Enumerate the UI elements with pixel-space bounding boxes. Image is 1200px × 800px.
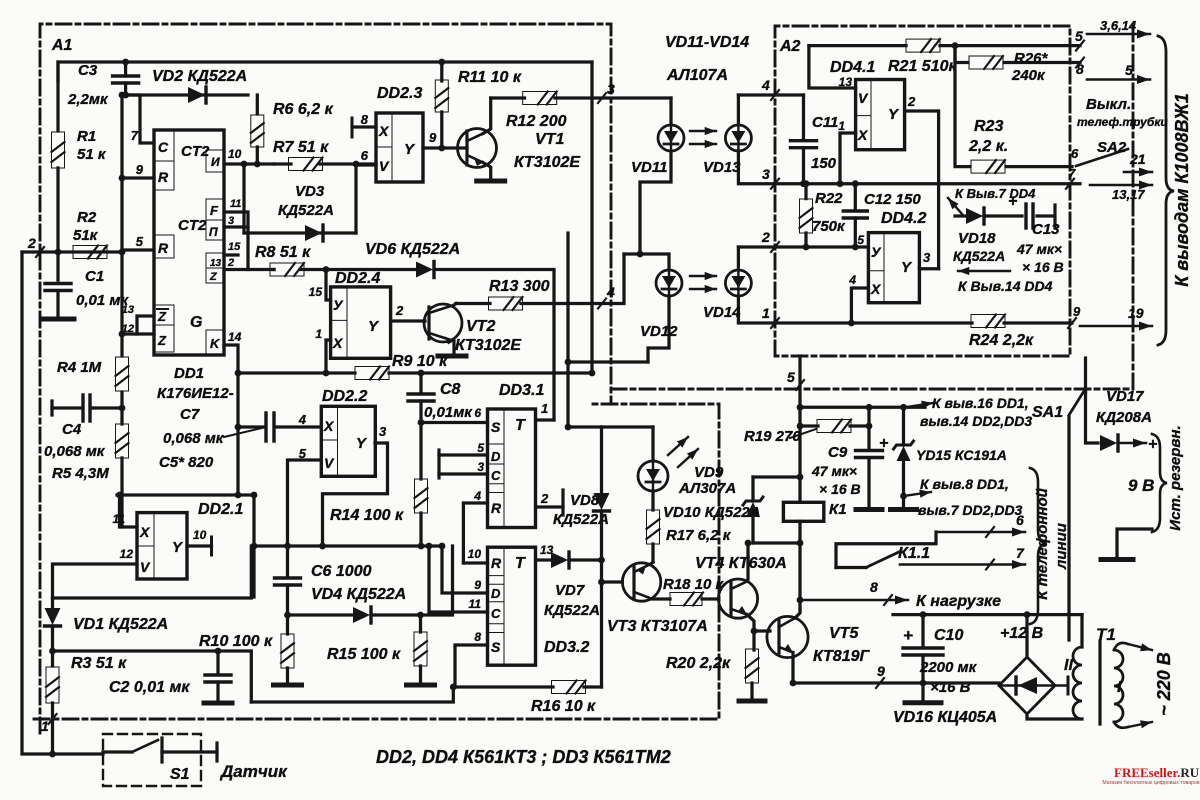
svg-text:A1: A1: [51, 37, 73, 54]
DD1 pin 9 R: [122, 162, 154, 178]
label I: [1117, 679, 1122, 696]
DD3.2 pin 13 out: [536, 543, 554, 560]
svg-text:C: C: [491, 606, 501, 621]
wire bottom rail y702: [251, 687, 453, 702]
svg-text:S: S: [491, 639, 501, 655]
node rail/K col: [235, 492, 242, 499]
node C11/row3: [800, 180, 807, 187]
wire VD1 top row: [53, 546, 252, 598]
label C1: [76, 268, 129, 309]
diode VD17: [1100, 435, 1118, 451]
DD3.2 pin 8 S: [455, 630, 488, 687]
battery minus lead: [1101, 529, 1152, 560]
label VD11-VD14 header: [665, 34, 749, 84]
relay K1 coil: [783, 502, 823, 521]
transistor VT1: [458, 129, 497, 168]
wire to VD12: [640, 254, 669, 269]
svg-text:К выводам К1008ВЖ1: К выводам К1008ВЖ1: [1172, 93, 1192, 287]
svg-text:15: 15: [309, 285, 323, 299]
resistor R4: [116, 357, 129, 391]
svg-text:К выв.16 DD1,: К выв.16 DD1,: [932, 395, 1029, 411]
switch SA2: [1071, 139, 1152, 177]
optocoupler photodiode VD14: [725, 247, 775, 323]
svg-text:8: 8: [361, 112, 369, 127]
label DD2.4: [335, 270, 380, 287]
wire VD9 top: [602, 427, 654, 461]
node R14 bottom: [418, 543, 425, 550]
svg-text:X: X: [378, 123, 390, 139]
A2 pin 1: [762, 305, 779, 328]
svg-text:C: C: [491, 468, 501, 483]
svg-text:3: 3: [228, 215, 234, 227]
svg-text:12: 12: [120, 547, 134, 561]
svg-text:R: R: [158, 240, 169, 256]
svg-text:C11: C11: [812, 114, 838, 131]
svg-text:Датчик: Датчик: [219, 762, 288, 781]
svg-text:VD10 КД522А: VD10 КД522А: [663, 504, 761, 521]
svg-text:VD13: VD13: [703, 159, 741, 176]
label VD6: [365, 241, 460, 258]
label VT4: [695, 555, 787, 572]
node VD8/VT3base: [598, 579, 605, 586]
resistor R21: [906, 39, 940, 52]
arrow out 3,6,14: [1075, 18, 1150, 51]
wire VD3 row: [244, 231, 356, 234]
svg-text:КД522А: КД522А: [278, 202, 334, 219]
svg-text:VD1 КД522А: VD1 КД522А: [73, 616, 168, 633]
IC DD3.2 body: [488, 547, 536, 665]
svg-text:К выв.8 DD1,: К выв.8 DD1,: [920, 476, 1009, 492]
DD2.3 pin 8 open: [352, 112, 376, 137]
wire DD2.2 V row: [288, 460, 322, 546]
svg-text:X: X: [323, 418, 335, 434]
diode VD2: [188, 87, 206, 103]
node И row / VD3 col: [241, 161, 248, 168]
transformer T1 secondary II: [1027, 615, 1082, 719]
resistor R23: [971, 160, 1005, 173]
node VD15/выв8: [900, 493, 907, 500]
svg-text:R2: R2: [77, 209, 97, 226]
resistor R26: [969, 56, 1003, 69]
svg-text:Ист. резервн.: Ист. резервн.: [1167, 425, 1184, 530]
label R16: [531, 698, 596, 715]
wire R13 to opto: [624, 252, 640, 255]
wire VD4 row: [288, 613, 421, 616]
svg-text:19: 19: [1128, 305, 1144, 321]
svg-text:9: 9: [136, 162, 144, 177]
wire VD4 row to DD3 area: [421, 546, 453, 615]
DD2.4 pin 2 Y out: [391, 303, 425, 321]
label R12: [506, 113, 581, 171]
label VD12: [640, 323, 678, 340]
label VD2: [152, 68, 247, 85]
svg-text:S: S: [491, 419, 501, 435]
svg-text:4: 4: [848, 273, 856, 287]
DD1 pin 7 C: [126, 95, 154, 143]
svg-text:R14 100 к: R14 100 к: [330, 507, 404, 524]
svg-text:R8 51 к: R8 51 к: [255, 244, 311, 261]
wire VD18 row start arrow: [948, 198, 962, 214]
pin 4 tick: [598, 284, 615, 309]
svg-text:C2 0,01 мк: C2 0,01 мк: [109, 679, 190, 696]
svg-text:8: 8: [870, 579, 878, 595]
DD3.1 pin 4 R: [463, 489, 487, 563]
svg-text:~ 220 В: ~ 220 В: [1154, 652, 1174, 716]
svg-text:К176ИЕ12-: К176ИЕ12-: [157, 385, 234, 402]
svg-text:R21 510к: R21 510к: [888, 58, 957, 75]
wire C9 col: [856, 407, 882, 509]
IC DD4.2 body: [868, 233, 919, 303]
resistor R3: [46, 651, 59, 754]
brace телефонной: [1030, 468, 1046, 624]
svg-text:0,01мк: 0,01мк: [424, 404, 473, 421]
svg-text:0,068 мк: 0,068 мк: [163, 430, 225, 447]
capacitor C12: [843, 184, 867, 247]
node R1/C1/R2: [55, 249, 62, 256]
node VD3 riser top: [353, 161, 360, 168]
C7 pointer: [224, 428, 262, 437]
label VD1: [73, 616, 168, 633]
node C12 top: [852, 180, 859, 187]
node C2 top: [215, 648, 222, 655]
svg-text:5: 5: [477, 441, 484, 455]
switch S1 dashed box: [103, 734, 201, 786]
label A2: [779, 38, 801, 55]
node bus Z pins: [119, 331, 126, 338]
node C7 left: [235, 424, 242, 431]
wire tel line col: [1067, 417, 1070, 640]
svg-text:R: R: [491, 500, 502, 516]
svg-text:R12 200: R12 200: [506, 113, 567, 130]
brace battery: [1152, 434, 1167, 532]
svg-text:FREEseller.RU: FREEseller.RU: [1114, 765, 1200, 780]
capacitor C6: [275, 546, 301, 615]
svg-text:51 к: 51 к: [77, 146, 107, 163]
pin 2 tick: [27, 235, 44, 257]
node VD2 left: [122, 92, 129, 99]
svg-text:8: 8: [474, 630, 481, 644]
svg-text:телеф.трубки: телеф.трубки: [1077, 115, 1168, 129]
svg-text:13,17: 13,17: [1112, 187, 1145, 202]
label К выв.8 DD1: [918, 476, 1023, 518]
resistor R17: [647, 510, 660, 562]
resistor R12: [523, 92, 557, 105]
label VT5: [813, 625, 871, 665]
svg-text:SA1: SA1: [1032, 404, 1063, 421]
DD2.1 pin 11: [113, 495, 137, 527]
resistor R18: [670, 593, 703, 606]
label C12: [864, 191, 926, 227]
svg-text:R24 2,2к: R24 2,2к: [969, 332, 1034, 349]
IC DD3.1 body: [488, 409, 536, 528]
switch S1: [103, 738, 217, 762]
label T1: [1096, 625, 1116, 644]
DD1 pins 13,12 Z: [122, 304, 154, 335]
svg-text:C6 1000: C6 1000: [311, 563, 372, 580]
svg-text:КД522А: КД522А: [953, 248, 1005, 264]
label R15: [327, 646, 401, 663]
VD9 light arrows: [668, 437, 698, 467]
svg-text:1: 1: [41, 718, 49, 734]
node C6 top: [284, 543, 291, 550]
wire R9 row: [238, 371, 592, 374]
DD3.1 pin 1 out: [536, 401, 554, 420]
node bus/C4: [119, 405, 126, 412]
LED VD9: [638, 461, 668, 491]
svg-text:АЛ107А: АЛ107А: [666, 67, 728, 84]
svg-text:5: 5: [857, 233, 864, 247]
svg-text:CT2: CT2: [178, 217, 207, 234]
transistor VT3: [622, 563, 660, 601]
svg-text:DD3.1: DD3.1: [499, 382, 544, 399]
label К выв.16 DD1: [920, 395, 1032, 429]
node VT4e/R20: [751, 628, 758, 635]
svg-text:7: 7: [1068, 166, 1076, 181]
svg-text:X: X: [332, 335, 344, 351]
svg-text:C: C: [158, 139, 169, 155]
node C10 top: [920, 611, 927, 618]
wire inner right col: [590, 62, 593, 373]
svg-text:C8: C8: [440, 381, 461, 398]
svg-text:R18 10 к: R18 10 к: [663, 576, 725, 593]
label R22: [812, 190, 846, 235]
resistor R22: [800, 184, 813, 247]
label VD9: [678, 464, 736, 497]
svg-text:11: 11: [230, 198, 241, 210]
svg-text:3: 3: [923, 250, 931, 265]
svg-text:VD3: VD3: [295, 183, 325, 200]
svg-text:R13 300: R13 300: [489, 278, 550, 295]
wire R10 row (C2): [53, 651, 252, 702]
DD4.2 pin 3 out: [919, 250, 938, 269]
DD4.2 pin 5: [857, 233, 864, 247]
svg-text:1: 1: [541, 401, 548, 416]
svg-text:+: +: [1148, 436, 1157, 453]
wire R23 row: [955, 46, 1072, 167]
svg-text:2: 2: [227, 257, 234, 269]
svg-text:VD6 КД522А: VD6 КД522А: [365, 241, 460, 258]
VT5 emitter: [791, 653, 794, 684]
node opto series: [637, 251, 644, 258]
svg-text:X: X: [857, 127, 869, 143]
svg-text:R6 6,2 к: R6 6,2 к: [273, 101, 334, 118]
label R3: [71, 655, 127, 672]
label DD3.2: [544, 639, 589, 656]
IC DD2.1 body: [137, 513, 187, 579]
svg-text:Z: Z: [157, 333, 167, 348]
wire A2 row2 (pin2): [775, 245, 868, 248]
wire A2 row1: [809, 44, 1080, 47]
label R1: [77, 128, 107, 163]
label R13: [489, 278, 550, 295]
DD4.1 pin 13: [809, 46, 856, 89]
wire R8/VD6 row: [274, 270, 554, 421]
DD1 pin F/П wires: [224, 198, 248, 270]
node col/rail407: [797, 404, 804, 411]
label 9В: [1128, 476, 1154, 495]
svg-text:VD11: VD11: [631, 159, 667, 176]
node VD6 row / DD2.4: [323, 266, 330, 273]
brace К1008ВЖ1: [1158, 36, 1174, 345]
svg-text:I: I: [1117, 679, 1122, 696]
label DD3.1: [499, 382, 544, 399]
svg-text:R4 1М: R4 1М: [57, 359, 102, 376]
node rail407/C9col: [866, 404, 873, 411]
VT2 collector to R13 row: [454, 304, 456, 306]
IC DD1 К176ИЕ12 body (CT2): [154, 130, 224, 355]
arrow к выв.16: [905, 401, 933, 409]
svg-text:К1.1: К1.1: [898, 545, 930, 562]
svg-text:АЛ307А: АЛ307А: [678, 480, 736, 497]
svg-text:+: +: [879, 435, 888, 452]
node R11 / base: [438, 145, 445, 152]
svg-text:VD16 КЦ405А: VD16 КЦ405А: [893, 709, 997, 726]
VT1 emitter: [474, 158, 505, 181]
optocoupler photodiode VD13: [725, 95, 775, 184]
bridge plus lead: [1024, 611, 1031, 657]
node col/543: [797, 540, 804, 547]
svg-text:G: G: [190, 314, 202, 331]
node row8: [797, 597, 804, 604]
logo FREEseller: [1102, 765, 1199, 786]
label C11: [811, 114, 838, 172]
svg-text:П: П: [209, 225, 218, 239]
node R9 right end: [589, 370, 596, 377]
arrow out 5: [1076, 58, 1150, 85]
DD1 pin 10 И to R7 row: [224, 147, 274, 164]
svg-text:КД208А: КД208А: [1096, 409, 1152, 426]
svg-text:C3: C3: [78, 62, 98, 79]
DD4.1 pin 1: [838, 119, 855, 184]
resistor R8: [270, 263, 304, 276]
svg-text:DD2, DD4 К561КТ3 ; DD3: DD2, DD4 К561КТ3 ; DD3 К561ТМ2: [376, 747, 671, 767]
label C9: [811, 444, 861, 497]
node rail/C col: [426, 543, 433, 550]
label VD4: [311, 586, 406, 603]
label C13: [1016, 221, 1064, 275]
capacitor C13 polar: [1008, 193, 1033, 228]
svg-text:F: F: [210, 203, 219, 218]
svg-text:CT2: CT2: [181, 143, 210, 160]
node R9/C8: [418, 370, 425, 377]
svg-text:X: X: [139, 524, 151, 540]
svg-text:КТ3102Е: КТ3102Е: [455, 337, 522, 354]
wire left input 2 row: [22, 250, 122, 253]
wire R7 row: [274, 162, 376, 165]
capacitor C7: [266, 413, 274, 441]
DD3.2 pin 10 R: [463, 547, 487, 563]
svg-text:VD9: VD9: [694, 464, 724, 481]
svg-text:S1: S1: [170, 766, 190, 783]
DD2.2 pin 4: [298, 412, 307, 427]
wire VD3 col down: [566, 233, 569, 427]
svg-text:DD4.2: DD4.2: [881, 210, 926, 227]
label DD4.1: [830, 59, 875, 76]
label R7: [273, 139, 329, 156]
label DD2.3: [377, 85, 422, 102]
svg-text:6: 6: [361, 148, 369, 163]
capacitor C3: [113, 62, 139, 95]
capacitor C9 polar: [856, 435, 889, 458]
svg-text:× 16 В: × 16 В: [819, 481, 861, 497]
svg-text:3: 3: [379, 424, 387, 439]
svg-text:DD2.1: DD2.1: [198, 501, 243, 518]
label R21: [888, 58, 957, 75]
label VD11: [631, 159, 667, 176]
svg-text:0,068 мк: 0,068 мк: [44, 443, 106, 460]
diode VD8 (vertical): [594, 427, 610, 687]
svg-text:VD14: VD14: [703, 304, 741, 321]
svg-text:R1: R1: [77, 128, 96, 145]
svg-text:+12 В: +12 В: [1000, 625, 1043, 642]
arrow к выв 14: [958, 267, 1010, 275]
svg-text:1: 1: [762, 305, 770, 321]
svg-text:14: 14: [228, 330, 242, 344]
svg-text:2,2 к.: 2,2 к.: [968, 138, 1008, 155]
svg-text:VD12: VD12: [640, 323, 678, 340]
svg-text:13: 13: [210, 258, 222, 269]
caption parts: [376, 747, 671, 767]
resistor R24: [971, 315, 1005, 328]
node sensor: [49, 751, 56, 758]
svg-text:D: D: [491, 449, 501, 464]
capacitor C4: [52, 395, 122, 421]
wire R26 row: [955, 46, 1080, 63]
svg-text:К1: К1: [829, 501, 847, 518]
wire bus y362: [568, 360, 648, 363]
wire R16 row: [455, 685, 602, 688]
node VD1/R3/R10row: [49, 648, 56, 655]
svg-text:И: И: [211, 155, 220, 169]
node R19 left: [797, 423, 804, 430]
label VT2: [455, 318, 522, 354]
wire R13 row: [456, 254, 624, 304]
A2 pin 3: [762, 166, 779, 189]
svg-text:КТ819Г: КТ819Г: [813, 648, 871, 665]
label DD2.2: [322, 388, 367, 405]
node mid rail left: [251, 543, 258, 550]
IC DD2.2 body: [321, 406, 375, 476]
node DD2.2 out bottom: [319, 543, 326, 550]
svg-text:DD2.3: DD2.3: [377, 85, 422, 102]
wire row6: [936, 512, 1025, 537]
wire row8: [800, 579, 1001, 610]
svg-text:VD4 КД522А: VD4 КД522А: [311, 586, 406, 603]
DD1 cell letters: [157, 139, 222, 351]
resistor R6: [251, 95, 264, 164]
label R10row: [0, 0, 1, 1]
DD2.4 pin 15: [309, 270, 331, 301]
DD1 pin 5 R: [122, 234, 154, 250]
node rail407/VD15: [900, 404, 907, 411]
svg-text:T: T: [515, 417, 526, 434]
resistor R7: [289, 158, 323, 171]
node bus/VD3col: [565, 359, 572, 366]
svg-text:2: 2: [907, 94, 916, 109]
pin 3 tick: [598, 81, 615, 103]
label VT3: [607, 618, 708, 635]
svg-text:A2: A2: [779, 38, 801, 55]
wire C7 row: [238, 425, 321, 428]
DD3.1 pins D C open: [439, 441, 488, 478]
svg-text:2: 2: [761, 229, 770, 245]
wire DD2.1 top rail: [117, 493, 254, 496]
A2 pin 2: [761, 229, 779, 252]
node R6/R7 row: [254, 161, 261, 168]
node VD4/R10: [284, 612, 291, 619]
svg-text:1: 1: [315, 327, 322, 341]
wire col 254: [252, 495, 255, 597]
